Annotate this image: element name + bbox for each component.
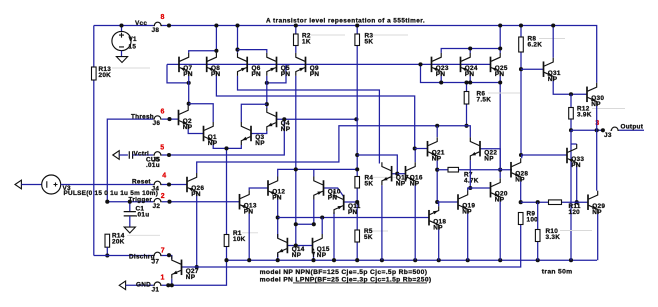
svg-text:NP: NP (292, 252, 302, 259)
wire Q17 emitter (381, 185, 383, 260)
svg-text:J6: J6 (153, 120, 161, 127)
wire Q15 collector (321, 218, 323, 235)
resistor R2 (294, 34, 299, 46)
wire Q31 collector (552, 26, 554, 58)
wire R10 column (537, 202, 539, 260)
svg-text:PN: PN (211, 71, 221, 78)
resistor R7 (448, 167, 459, 172)
jumper J3 (611, 127, 620, 130)
junction Q7 emitter loop (187, 81, 191, 85)
wire Dischrg right (162, 256, 172, 259)
wire R13 column (93, 26, 95, 256)
junction output R12 (569, 128, 573, 132)
wire C1 top (129, 202, 131, 212)
svg-text:NP: NP (410, 180, 420, 187)
junction rail J8 (167, 23, 171, 27)
wire Q22 emitter (469, 160, 471, 188)
model underline (293, 282, 427, 284)
wire R11 line (521, 201, 588, 203)
svg-text:PN: PN (281, 71, 291, 78)
junction line2 Q9em (294, 167, 298, 171)
wire Q19 emitter (467, 214, 469, 261)
svg-text:NP: NP (396, 180, 406, 187)
wire Q7 collector tie (189, 51, 217, 53)
wire Q8 rail drop (215, 26, 217, 53)
transistor Q28 (510, 162, 512, 178)
transistor Q7 (178, 57, 180, 73)
wire line2 (278, 169, 358, 176)
wire Vcc rail left (94, 25, 154, 27)
resistor R5 (355, 230, 360, 242)
wire Q30 emitter (596, 106, 598, 131)
junction rail Q31 (551, 23, 555, 27)
junction bus Q20em (498, 258, 502, 262)
transistor Q26 (186, 177, 188, 193)
wire R8 column (520, 26, 522, 156)
wire Q12 emitter column (277, 200, 279, 235)
wire Trigger right (162, 201, 240, 203)
wire Vctrl mid (133, 154, 154, 156)
junction Reset pin (167, 182, 171, 186)
wire Q21 base (415, 148, 428, 150)
wire R6 column (466, 83, 468, 126)
wire Q21 emitter (436, 160, 438, 202)
wire Reset right (162, 184, 187, 186)
junction C1 trigger (128, 200, 132, 204)
wire Q11 emitter (333, 212, 335, 260)
junction rail Q6 (235, 23, 239, 27)
junction Q6 collector (235, 48, 239, 52)
wire line A (238, 76, 380, 164)
transistor Q15 (312, 238, 314, 254)
wire Q31 emitter (553, 81, 587, 95)
transistor Q10 (323, 180, 325, 196)
wire C1 bottom (129, 216, 131, 227)
wire R12 column (570, 94, 572, 130)
wire Q24 collector stub (469, 49, 471, 53)
wire Q18 collector (438, 229, 440, 260)
wire Q29 emitter (597, 214, 599, 261)
junction mirror tie (418, 62, 422, 66)
wire Q1 Q3 emitters (213, 145, 241, 148)
transistor Q6 (246, 57, 248, 73)
resistor R6 (464, 92, 469, 105)
svg-text:NP: NP (255, 140, 265, 147)
wire Q6 rail drop (237, 26, 239, 53)
wire Trigger left (107, 201, 153, 203)
junction Thresh pin (167, 117, 171, 121)
wire Q33 emitter (576, 167, 578, 202)
svg-text:.01u: .01u (136, 212, 150, 219)
junction Q7em Q2coll (187, 102, 191, 106)
wire Q14 emitter (277, 253, 279, 260)
wire Q25 rail riser (499, 26, 501, 53)
svg-text:Thresh: Thresh (131, 113, 154, 120)
resistor R3 (355, 34, 360, 46)
transistor Q3 (250, 126, 252, 142)
junction Q28 base tap (498, 168, 502, 172)
wire R7 line (437, 169, 512, 171)
svg-text:PN: PN (272, 195, 282, 202)
transistor Q27 (181, 260, 183, 276)
wire Q2 emitter (188, 129, 203, 134)
wire Vctrl left (119, 154, 128, 156)
transistor Q31 (543, 61, 545, 76)
transistor Q25 (490, 57, 492, 73)
svg-text:J7: J7 (152, 259, 160, 266)
junction bus Q19em (466, 258, 470, 262)
jumper J1 (153, 282, 162, 285)
wire V1 top (121, 26, 123, 32)
wire Q17 base tie (357, 155, 397, 174)
svg-text:PULSE(0 15 0 1u 1u 5m 10m): PULSE(0 15 0 1u 1u 5m 10m) (64, 190, 159, 197)
junction Q21 collector (435, 124, 439, 128)
svg-text:A transistor level repesentati: A transistor level repesentation of a 55… (266, 17, 425, 24)
svg-text:PN: PN (244, 208, 254, 215)
svg-text:NP: NP (495, 196, 505, 203)
svg-text:NP: NP (432, 155, 442, 162)
svg-text:NP: NP (281, 126, 291, 133)
svg-text:20K: 20K (99, 72, 112, 79)
junction bus R10 (536, 258, 540, 262)
wire Q25 emitter column (499, 76, 501, 178)
transistor Q23 (431, 57, 433, 73)
resistor R10 (535, 230, 540, 242)
svg-text:NP: NP (186, 274, 196, 281)
voltage source V3 (42, 175, 61, 194)
junction Dischrg pin (167, 253, 171, 257)
transistor Q9 (305, 57, 307, 73)
transistor Q29 (587, 194, 589, 210)
svg-text:V1: V1 (129, 36, 138, 43)
wire V3 left (21, 184, 41, 186)
svg-text:tran 50m: tran 50m (542, 268, 573, 275)
junction Q25 collector (498, 46, 502, 50)
wire Q23 emitter stub (440, 76, 442, 83)
junction lineB Q16 Q21 (413, 146, 417, 150)
wire Q27 collector (171, 255, 173, 257)
svg-text:PN: PN (571, 162, 581, 169)
wire Q16 base (397, 173, 405, 175)
junction bus Q16em (413, 258, 417, 262)
wire Q3 collector link (241, 104, 266, 122)
svg-text:NP: NP (433, 224, 443, 231)
svg-text:J4: J4 (152, 185, 160, 192)
junction Q33em R11line (575, 200, 579, 204)
junction Q11 base divider (355, 200, 359, 204)
transistor Q13 (239, 194, 241, 210)
junction R6 bottom (464, 124, 468, 128)
junction bus Q14em (276, 258, 280, 262)
wire Q9 emitter long (295, 76, 297, 246)
wire Vcc rail right (162, 26, 597, 83)
wire Q27 base line (182, 225, 521, 268)
junction divider Q17base (355, 153, 359, 157)
junction Vctrl Q4base (282, 117, 286, 121)
svg-text:PN: PN (183, 71, 193, 78)
junction Trigger pin (167, 200, 171, 204)
junction bus Q18coll (437, 258, 441, 262)
wire Q19 collector (468, 188, 471, 191)
svg-text:PN: PN (495, 71, 505, 78)
wire R3R4R5 column (356, 26, 358, 261)
transistor Q12 (267, 180, 269, 196)
wire R14 bottom (106, 247, 108, 255)
transistor Q1 (203, 126, 205, 142)
svg-text:1: 1 (161, 275, 165, 282)
junction R7 left (435, 168, 439, 172)
svg-text:NP: NP (183, 124, 193, 131)
wire ground bus (227, 259, 598, 261)
svg-text:10K: 10K (233, 236, 246, 243)
wire Thresh left (107, 119, 153, 202)
svg-text:Output: Output (621, 123, 644, 130)
wire Q26 collector (197, 126, 471, 173)
junction Q12em bus2 (276, 215, 280, 219)
ground under C1 (124, 227, 135, 233)
wire Q27 emitter (171, 279, 173, 286)
transistor Q33 (566, 148, 568, 164)
wire Q10 base (324, 188, 344, 197)
svg-text:6: 6 (161, 109, 165, 116)
svg-text:Reset: Reset (132, 179, 151, 186)
transistor Q17 (391, 166, 393, 182)
jumper J6 (153, 116, 162, 119)
wire Dischrg (94, 255, 153, 257)
junction Vctrl pin (167, 153, 171, 157)
wire Q14 collector (277, 234, 279, 238)
resistor R13 (92, 67, 97, 80)
svg-text:8: 8 (161, 14, 165, 21)
wire V1 bottom (121, 51, 123, 57)
transistor Q24 (460, 57, 462, 73)
junction Q4base R3R4 (354, 117, 358, 121)
junction Q8 collector (214, 49, 218, 53)
transistor Q8 (206, 57, 208, 73)
svg-text:5K: 5K (365, 38, 374, 45)
svg-text:7: 7 (161, 247, 165, 254)
wire Q13 collector (249, 188, 268, 190)
junction bus Q15em (311, 258, 315, 262)
junction Q19 base Q18em (435, 200, 439, 204)
junction R12 top (569, 92, 573, 96)
svg-text:J1: J1 (152, 287, 160, 294)
wire Q23 collector tie (441, 49, 500, 53)
transistor Q21 (427, 141, 429, 157)
svg-text:.01u: .01u (146, 162, 160, 169)
svg-text:NP: NP (548, 76, 558, 83)
wire Vctrl right (162, 119, 284, 155)
wire pnp mirror tie (421, 64, 501, 82)
transistor Q22 (479, 141, 481, 157)
svg-text:model NP NPN(BF=125 Cje=.5p Cj: model NP NPN(BF=125 Cje=.5p Cjc=.5p Rb=5… (260, 269, 428, 276)
svg-text:20K: 20K (112, 239, 125, 246)
wire Q19 base (437, 201, 458, 203)
svg-text:100: 100 (527, 216, 539, 223)
transistor Q20 (490, 182, 492, 198)
capacitor CU5 (129, 151, 132, 159)
wire Q5 emitter down (266, 76, 268, 108)
svg-text:Vcc: Vcc (135, 20, 147, 27)
transistor Q2 (178, 110, 180, 126)
junction output pin (601, 128, 605, 132)
resistor R12 (569, 108, 574, 120)
svg-text:7.5K: 7.5K (477, 96, 492, 103)
wire Q5 tie (267, 64, 286, 83)
junction Q15 collector (320, 215, 324, 219)
transistor Q18 (428, 210, 430, 226)
transistor Q14 (286, 238, 288, 254)
junction bus outdrop (569, 258, 573, 262)
junction line2 R4top (355, 167, 359, 171)
wire Q30Q29 column (596, 130, 598, 190)
port arrow V3 (15, 180, 21, 189)
transistor Q30 (586, 87, 588, 103)
wire Q5 collector tie (238, 50, 267, 53)
wire Q10 emitter (296, 200, 314, 225)
junction rail R8 (519, 23, 523, 27)
wire Q28 collector (521, 155, 523, 158)
wire R2 column (295, 26, 297, 53)
junction Q28em R9 (519, 200, 523, 204)
jumper J8 (153, 22, 162, 25)
junction V1 rail (119, 23, 123, 27)
svg-text:PN: PN (310, 71, 320, 78)
wire pnp base bus (167, 63, 491, 65)
ground under V1 (116, 57, 127, 63)
svg-text:3.3K: 3.3K (546, 234, 561, 241)
resistor R8 (519, 37, 524, 52)
resistor R4 (355, 177, 360, 189)
junction Q22em Q19coll (468, 186, 472, 190)
junction Q10em Q9em (294, 222, 298, 226)
jumper J4 (153, 181, 162, 184)
voltage source V1 (112, 31, 131, 50)
svg-text:4: 4 (162, 172, 166, 179)
wire Q33 base (521, 154, 567, 156)
junction Q5 emitter tie (265, 81, 269, 85)
resistor R14 (105, 234, 110, 247)
wire Q21 collector (436, 126, 438, 137)
svg-text:NP: NP (462, 209, 472, 216)
wire Q13 emitter (248, 213, 250, 260)
svg-text:NP: NP (317, 252, 327, 259)
junction rail R2 (294, 23, 298, 27)
wire Q20 emitter (499, 201, 501, 260)
wire output line (571, 129, 603, 131)
wire Q16 emitter (414, 185, 416, 260)
svg-text:PN: PN (252, 71, 262, 78)
junction GND pin (166, 283, 170, 287)
wire Q22 base (480, 149, 500, 170)
junction bus R5 (355, 258, 359, 262)
svg-text:GND: GND (136, 282, 151, 289)
svg-text:3.9K: 3.9K (577, 112, 592, 119)
wire Q18 emitter link (437, 202, 439, 206)
transistor Q19 (457, 194, 459, 210)
junction Q26em Q27base (195, 265, 199, 269)
wire Q24 emitter stub (469, 76, 471, 83)
wire Q26 emitter (196, 196, 198, 267)
wire GND right (162, 148, 227, 285)
junction rail R3 (355, 23, 359, 27)
wire emitter bus2 (278, 217, 429, 219)
junction rail Q25 (498, 23, 502, 27)
jumper J5 (153, 152, 162, 155)
junction bus Q11em (332, 258, 336, 262)
junction Q25em bus (498, 80, 502, 84)
wire Q16 collector (414, 149, 416, 163)
svg-text:2: 2 (161, 193, 165, 200)
junction Q3Q4 collector (265, 102, 269, 106)
transistor Q16 (405, 166, 407, 182)
svg-text:NP: NP (208, 140, 218, 147)
wire Thresh right (162, 118, 179, 120)
svg-text:PN: PN (436, 71, 446, 78)
wire Q7 emitter (188, 76, 190, 106)
junction R6 top (464, 80, 468, 84)
wire Q7 base loop (167, 64, 189, 83)
svg-text:J8: J8 (152, 27, 160, 34)
junction bus Q13em (247, 258, 251, 262)
wire Q31 base (521, 68, 544, 70)
svg-text:15: 15 (129, 44, 137, 51)
junction Q17 base (395, 172, 399, 176)
svg-text:120: 120 (569, 209, 581, 216)
wire GND left (126, 284, 154, 286)
wire Q20 base (470, 187, 490, 189)
junction Q33 base R8 (519, 153, 523, 157)
wire Q14 Q15 base (287, 245, 312, 247)
junction Q27 emitter (170, 283, 174, 287)
junction R14 Dischrg (105, 253, 109, 257)
svg-text:J2: J2 (153, 203, 161, 210)
capacitor C1 (124, 212, 136, 216)
svg-text:PN: PN (465, 71, 475, 78)
junction Q14 base (294, 243, 298, 247)
svg-text:J3: J3 (604, 132, 612, 139)
junction R10 top (536, 200, 540, 204)
jumper J7 (153, 252, 162, 255)
transistor Q11 (343, 195, 345, 211)
wire Reset (61, 184, 154, 186)
port arrow Vctrl (113, 151, 119, 160)
svg-text:5K: 5K (365, 181, 374, 188)
junction R1 top (224, 146, 228, 150)
junction Q24 emitter (468, 80, 472, 84)
svg-text:NP: NP (592, 209, 602, 216)
svg-text:1K: 1K (302, 38, 311, 45)
svg-text:5K: 5K (364, 234, 373, 241)
wire Q2 collector link (189, 104, 214, 122)
svg-text:PN: PN (348, 209, 358, 216)
junction Q24 collector (468, 46, 472, 50)
wire Q11 base (344, 201, 358, 203)
svg-text:5: 5 (160, 145, 164, 152)
wire Q4 base line (277, 118, 357, 120)
junction bus R1 (224, 258, 228, 262)
wire Q28 emitter (520, 181, 522, 202)
wire line B (216, 76, 414, 149)
resistor R11 (549, 200, 562, 205)
svg-text:NP: NP (484, 155, 494, 162)
junction Trigger-Thresh (105, 200, 109, 204)
svg-text:4.7K: 4.7K (464, 178, 479, 185)
port arrow GND (119, 281, 125, 290)
wire Q33 collector (571, 143, 577, 145)
wire output right (619, 129, 644, 131)
svg-text:PN: PN (191, 191, 201, 198)
